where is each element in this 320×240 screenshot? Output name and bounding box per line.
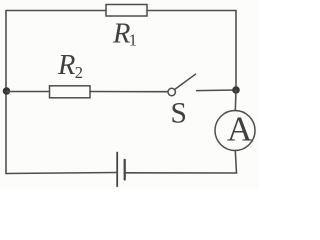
svg-text:S: S	[171, 97, 187, 129]
svg-text:A: A	[227, 110, 253, 149]
wire top-right segment	[147, 10, 236, 12]
wire ammeter to bottom	[235, 151, 236, 174]
wire bottom-right segment	[125, 172, 237, 174]
wire bottom-left segment	[6, 173, 117, 174]
wire junction to ammeter	[234, 90, 237, 111]
wire R2 to switch	[90, 91, 168, 93]
ammeter A	[215, 111, 255, 151]
switch S	[168, 74, 196, 96]
wire top-left segment	[6, 10, 106, 12]
wire middle left segment	[7, 91, 50, 93]
wire right vertical upper	[235, 11, 237, 91]
wire left vertical	[5, 11, 7, 174]
wire switch to junction	[197, 89, 236, 92]
resistor R1	[106, 5, 147, 17]
svg-text:1: 1	[129, 30, 137, 49]
svg-text:R: R	[112, 19, 130, 50]
battery cell	[117, 153, 125, 187]
node junction left	[3, 87, 11, 95]
svg-text:2: 2	[75, 63, 83, 82]
resistor R2	[50, 86, 91, 98]
svg-text:R: R	[57, 50, 75, 81]
node junction right	[232, 86, 240, 94]
